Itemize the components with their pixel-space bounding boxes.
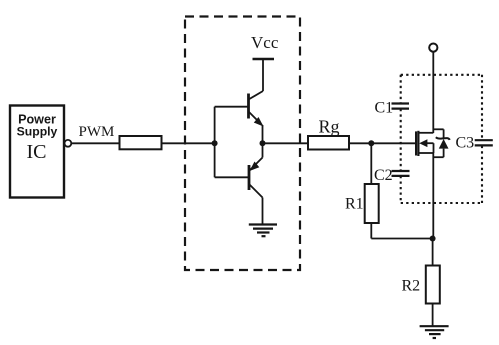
transistor Q2 PNP (lower) — [249, 143, 263, 224]
svg-text:Rg: Rg — [319, 117, 340, 137]
wire lower base line — [215, 176, 249, 178]
capacitor C3 — [475, 140, 493, 145]
node output junction dot — [260, 140, 266, 146]
svg-text:IC: IC — [27, 141, 47, 163]
svg-text:Vcc: Vcc — [251, 33, 279, 52]
series resistor (PWM input) — [120, 136, 162, 149]
ground (bottom) — [420, 326, 449, 338]
resistor Rg — [308, 136, 349, 150]
node input junction dot — [212, 140, 218, 146]
svg-text:C1: C1 — [375, 100, 394, 117]
svg-text:C3: C3 — [456, 135, 475, 152]
svg-text:Supply: Supply — [17, 125, 58, 139]
transistor Q1 NPN (upper) — [215, 91, 264, 143]
dotted box MOSFET parasitics — [401, 75, 482, 203]
node gate junction dot — [368, 140, 374, 146]
ground (driver stage) — [249, 225, 277, 237]
PWM output terminal circle — [65, 140, 72, 147]
svg-text:PWM: PWM — [79, 124, 115, 140]
transistor M1 MOSFET — [416, 131, 433, 156]
svg-text:R1: R1 — [345, 196, 364, 213]
capacitor C1 — [392, 104, 410, 109]
wire R2 to ground — [432, 304, 434, 327]
drain terminal circle — [429, 44, 437, 52]
wire PWM output to series resistor — [72, 142, 120, 144]
svg-text:R2: R2 — [402, 278, 421, 295]
wire gate node down to R1 — [370, 143, 372, 184]
wire Rg to gate — [349, 142, 417, 144]
dashed box driver stage — [185, 17, 300, 271]
resistor R2 — [426, 266, 440, 304]
wire source vertical to bottom junction — [432, 153, 434, 239]
wire resistor to driver input node — [162, 142, 215, 144]
wire drain vertical — [432, 52, 434, 133]
node source/R1/R2 junction dot — [430, 236, 436, 242]
power supply IC box U1 — [10, 106, 64, 198]
wire driver output to Rg — [263, 142, 309, 144]
wire junction to R2 — [432, 239, 434, 266]
wire R1 bottom to junction — [371, 223, 432, 239]
capacitor C2 — [392, 171, 410, 176]
diode D1 body diode — [433, 129, 449, 157]
resistor R1 — [365, 184, 379, 223]
Vcc supply bar — [253, 59, 275, 91]
wire base tie line (left vertical) — [214, 107, 216, 178]
svg-text:C2: C2 — [374, 167, 393, 184]
